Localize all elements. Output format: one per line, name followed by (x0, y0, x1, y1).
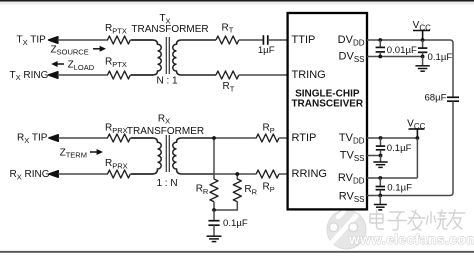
capacitor 0.1uF (RV) (379, 178, 381, 186)
wire 68uF to RVSS rail (367, 101, 453, 195)
label ZLOAD with arrow (55, 63, 64, 65)
wire TX RING to RPTX (58, 74, 109, 76)
wire TVSS line (367, 155, 381, 157)
wire TVDD line (367, 137, 417, 139)
wire RVDD line (367, 177, 417, 179)
resistor RT (ttip) (216, 36, 239, 44)
svg-text:RRING: RRING (292, 168, 327, 180)
wire RX secondary bottom to RP (181, 173, 257, 175)
wire RX RING to RPRX (58, 173, 108, 175)
wire RPTX to TX transformer (ring) (130, 74, 153, 76)
junction dot RVSS/cap (378, 194, 382, 198)
node RX_RING input arrow (49, 171, 58, 177)
junction dot TVSS/cap (379, 154, 383, 158)
junction dot RTIP/RR (212, 136, 216, 140)
IC U1 SINGLE-CHIP TRANSCEIVER (288, 13, 367, 209)
resistor RP (rring) (256, 170, 279, 178)
junction dot DVDD/VCC (421, 38, 425, 42)
capacitor 0.1uF (TV) (380, 138, 382, 146)
watermark logo circle (327, 208, 366, 249)
wire left RR bottom (213, 202, 215, 210)
wire RVSS to ground (379, 196, 381, 205)
resistor RR (left) (210, 179, 218, 202)
transformer T2 core (166, 135, 169, 172)
svg-text:0.1µF: 0.1µF (387, 143, 412, 154)
resistor RPRX (ring) (108, 170, 131, 178)
junction dot RVDD/cap (378, 176, 382, 180)
node RX_TIP input arrow (49, 135, 58, 141)
transformer T1 TX primary winding (131, 40, 161, 75)
resistor RPTX (ring) (108, 71, 131, 79)
node TX_TIP input arrow (49, 37, 58, 43)
svg-text:0.1µF: 0.1µF (387, 183, 412, 194)
ground (373, 162, 387, 167)
svg-text:N : 1: N : 1 (156, 75, 178, 86)
wire cap to ground (213, 225, 215, 236)
wire RP to RRING pin (279, 173, 288, 175)
svg-text:TRANSCEIVER: TRANSCEIVER (291, 98, 363, 109)
transformer T1 TX secondary winding (173, 40, 216, 75)
wire TVSS to ground (380, 156, 382, 162)
resistor RT (tring) (216, 71, 239, 79)
wire join to 0.1uF cap (213, 210, 215, 220)
svg-text:TRING: TRING (292, 69, 326, 81)
resistor RR (right) (233, 179, 241, 202)
wire VCC branch down to RVDD (416, 138, 418, 178)
node TX_RING input arrow (49, 72, 58, 78)
power VCC (analog) (409, 129, 425, 138)
svg-text:www.elecfans.com: www.elecfans.com (348, 232, 474, 247)
junction dot DVDD/0.01uF (378, 38, 382, 42)
resistor RPTX (tip) (108, 36, 131, 44)
svg-text:1 : N: 1 : N (156, 178, 177, 189)
wire right RR drop from RRING line (236, 174, 238, 179)
ground (415, 66, 429, 71)
wire RP to RTIP pin (279, 137, 288, 139)
junction dot RRING/RR (235, 172, 239, 176)
capacitor 0.01uF stubs (379, 40, 381, 47)
svg-text:TRANSFORMER: TRANSFORMER (131, 24, 208, 35)
transformer T2 RX secondary winding (173, 138, 214, 174)
transformer T1 core (166, 37, 169, 74)
svg-text:68µF: 68µF (424, 92, 446, 103)
svg-text:TX RING: TX RING (10, 70, 49, 82)
junction dot DVSS/0.1uF (421, 55, 425, 59)
capacitor 1uF (263, 35, 267, 45)
transformer T2 RX primary winding (131, 138, 161, 174)
svg-text:TRANSFORMER: TRANSFORMER (127, 126, 204, 137)
power VCC (top) (413, 31, 430, 41)
svg-text:RX TIP: RX TIP (17, 133, 48, 145)
wire DVSS line (367, 56, 423, 58)
wire TX TIP to RPTX (58, 39, 109, 41)
capacitor 68uF (447, 97, 459, 101)
wire RPTX to TX transformer (130, 39, 153, 41)
ground (207, 236, 222, 241)
wire left RR drop from RTIP line (213, 138, 215, 179)
junction dot TVDD/cap (379, 136, 383, 140)
svg-text:RTIP: RTIP (292, 132, 317, 144)
wire RT to 1uF cap (239, 39, 263, 41)
watermark chinese text (370, 210, 465, 230)
wire RT to TRING pin (239, 74, 288, 76)
svg-text:1µF: 1µF (258, 45, 275, 56)
ground (374, 205, 387, 210)
wire DVSS to ground (422, 57, 424, 66)
wire RPRX to RX transformer (130, 137, 153, 139)
svg-text:TTIP: TTIP (292, 34, 316, 46)
wire joining RR bottoms (214, 202, 237, 211)
resistor RP (rtip) (256, 134, 279, 142)
capacitor 0.1uF (RX bias) (208, 221, 219, 226)
wire RX TIP to RPRX (58, 137, 108, 139)
junction dot DVSS/0.01uF (378, 55, 382, 59)
resistor RPRX (tip) (108, 134, 131, 142)
wire RPRX to RX transformer (ring) (130, 173, 153, 175)
wire RX secondary top to RP (214, 137, 257, 139)
wire 1uF to TTIP pin (268, 39, 288, 41)
capacitor 0.1uF (digital) (422, 40, 424, 48)
svg-text:TX TIP: TX TIP (17, 35, 47, 47)
svg-text:0.01µF: 0.01µF (387, 45, 417, 56)
svg-text:0.1µF: 0.1µF (428, 52, 453, 63)
svg-text:RX RING: RX RING (10, 169, 50, 181)
wire DVDD rail to right vertical (367, 40, 453, 97)
junction dot RR join (212, 208, 216, 212)
svg-text:0.1µF: 0.1µF (223, 218, 248, 229)
junction dot TVDD/VCC (416, 136, 420, 140)
